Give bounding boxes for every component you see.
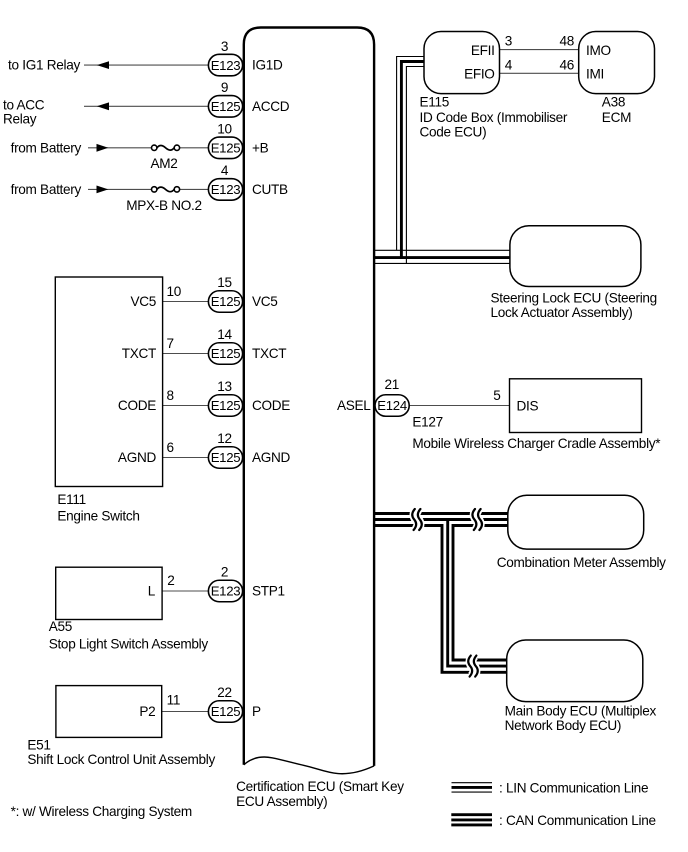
svg-text:IG1D: IG1D (252, 58, 283, 73)
svg-text:46: 46 (559, 57, 574, 72)
svg-text:3: 3 (505, 34, 512, 49)
wire P row (162, 711, 209, 713)
svg-text:10: 10 (167, 284, 182, 299)
svg-text:AGND: AGND (252, 450, 291, 465)
arrow to IG1 Relay (97, 61, 109, 69)
svg-text:11: 11 (167, 693, 181, 708)
box E127 Mobile Wireless Charger Cradle (510, 379, 642, 433)
box Steering Lock ECU (510, 226, 641, 287)
svg-text:Engine Switch: Engine Switch (57, 509, 139, 524)
svg-text:VC5: VC5 (252, 294, 278, 309)
CAN middle line (374, 518, 508, 521)
box Main Body ECU (507, 640, 643, 702)
svg-text:E115: E115 (420, 94, 450, 109)
svg-text:from Battery: from Battery (11, 140, 82, 155)
svg-text:A55: A55 (49, 619, 72, 634)
CAN top line (374, 512, 508, 515)
box E51 Shift Lock Control Unit (56, 686, 162, 738)
svg-text:13: 13 (217, 379, 232, 394)
LIN line horizontal thick (374, 256, 510, 259)
svg-text:Shift Lock Control Unit Assemb: Shift Lock Control Unit Assembly (27, 752, 215, 767)
box A38 ECM (579, 32, 655, 94)
svg-text:12: 12 (217, 431, 232, 446)
svg-text:IMI: IMI (586, 67, 604, 82)
fuse AM2 (152, 145, 157, 150)
svg-text:2: 2 (221, 565, 228, 580)
wire CODE row (163, 405, 209, 407)
box E115 ID Code Box (424, 32, 500, 94)
wire IG1D row (84, 64, 208, 66)
svg-text:14: 14 (217, 327, 232, 342)
svg-text:E125: E125 (211, 704, 241, 719)
LIN line horizontal thin bottom (374, 262, 510, 264)
svg-text:L: L (148, 584, 156, 599)
svg-text:E123: E123 (211, 58, 241, 73)
svg-text:Relay: Relay (3, 111, 37, 126)
svg-text:9: 9 (221, 80, 228, 95)
svg-text:E125: E125 (211, 141, 241, 156)
svg-text:E125: E125 (211, 294, 241, 309)
wire ASEL to DIS (409, 405, 509, 407)
svg-text:15: 15 (217, 275, 232, 290)
CAN bottom-left line with outer corner to Main Body ECU (374, 526, 507, 673)
svg-text:from Battery: from Battery (11, 182, 82, 197)
connector E125 VC5 (208, 291, 242, 313)
svg-text:MPX-B NO.2: MPX-B NO.2 (126, 198, 202, 213)
connector E125 TXCT (208, 343, 242, 365)
wire +B row right (180, 147, 209, 149)
svg-text:E123: E123 (211, 584, 241, 599)
fuse MPX-B NO.2 (152, 187, 157, 192)
svg-text:ACCD: ACCD (252, 99, 290, 114)
svg-text:CODE: CODE (118, 398, 156, 413)
connector E125 AGND (208, 447, 242, 469)
svg-text:CUTB: CUTB (252, 182, 288, 197)
svg-text:Network Body ECU): Network Body ECU) (505, 718, 622, 733)
svg-text:E127: E127 (412, 415, 443, 430)
legend CAN swatch (451, 813, 492, 816)
svg-text:7: 7 (167, 336, 174, 351)
svg-text:E51: E51 (27, 737, 50, 752)
legend LIN swatch (452, 782, 493, 784)
svg-text:ECU Assembly): ECU Assembly) (236, 794, 327, 809)
svg-text:E125: E125 (211, 346, 241, 361)
LIN line horizontal thin top (374, 249, 510, 251)
svg-text:to IG1 Relay: to IG1 Relay (8, 58, 80, 73)
svg-text:IMO: IMO (586, 43, 611, 58)
connector E125 ACCD (208, 96, 242, 118)
svg-text:E123: E123 (211, 182, 241, 197)
svg-text:A38: A38 (602, 94, 625, 109)
box Combination Meter Assembly (508, 495, 644, 549)
svg-text:E125: E125 (211, 450, 241, 465)
ECU wavy bottom edge (244, 757, 374, 774)
arrow to ACC Relay (97, 102, 109, 110)
wire EFII to IMO (500, 49, 579, 51)
svg-text:Steering Lock ECU (Steering: Steering Lock ECU (Steering (491, 290, 657, 305)
wire STP1 row (162, 590, 208, 592)
connector E123 IG1D (208, 54, 242, 76)
svg-text:10: 10 (217, 122, 232, 137)
wire ACCD row (84, 105, 208, 107)
svg-text:2: 2 (167, 573, 174, 588)
svg-text:VC5: VC5 (130, 294, 156, 309)
svg-text:EFII: EFII (471, 43, 495, 58)
wire break symbol on CAN near Main Body ECU (468, 656, 478, 677)
LIN branch thin outer to ID code box (397, 57, 424, 251)
svg-text:3: 3 (221, 39, 228, 54)
svg-text:Code ECU): Code ECU) (420, 125, 487, 140)
svg-text:E124: E124 (377, 398, 407, 413)
svg-text:Stop Light Switch Assembly: Stop Light Switch Assembly (49, 637, 209, 652)
svg-text:Main Body ECU (Multiplex: Main Body ECU (Multiplex (505, 703, 657, 718)
svg-text:22: 22 (217, 685, 232, 700)
svg-text:4: 4 (221, 163, 229, 178)
svg-text:8: 8 (167, 388, 174, 403)
svg-text:Combination Meter Assembly: Combination Meter Assembly (497, 555, 666, 570)
wire TXCT row (163, 353, 209, 355)
wire EFIO to IMI (500, 72, 579, 74)
wire VC5 row (163, 301, 209, 303)
connector E125 +B (208, 137, 242, 159)
wire break symbol on CAN near ECU (412, 509, 422, 530)
arrow from Battery (97, 144, 109, 152)
svg-text:CODE: CODE (252, 398, 290, 413)
svg-text:E125: E125 (211, 398, 241, 413)
ECU U1 Certification ECU body (244, 28, 374, 766)
svg-text:E111: E111 (57, 492, 86, 507)
svg-text:Mobile Wireless Charger Cradle: Mobile Wireless Charger Cradle Assembly* (412, 436, 661, 451)
svg-text:4: 4 (505, 57, 513, 72)
connector E123 STP1 (208, 580, 242, 602)
CAN middle branch to Main Body ECU (448, 520, 507, 666)
svg-text:EFIO: EFIO (464, 67, 495, 82)
arrow from Battery 2 (97, 186, 109, 194)
wire CUTB row right (180, 188, 209, 190)
svg-text:AM2: AM2 (150, 156, 177, 171)
LIN branch thick to ID code box (401, 62, 424, 258)
LIN branch thin inner to ID code box (406, 67, 424, 264)
svg-text:5: 5 (493, 388, 500, 403)
svg-text:Lock Actuator Assembly): Lock Actuator Assembly) (491, 305, 633, 320)
svg-text:+B: +B (252, 140, 269, 155)
wire break symbol on CAN near Combination Meter (472, 509, 482, 530)
box A55 Stop Light Switch (56, 567, 162, 619)
CAN bottom-right line with inner corner to Main Body ECU (453, 526, 508, 661)
connector E125 P (208, 701, 242, 723)
svg-text:TXCT: TXCT (252, 346, 286, 361)
box E111 Engine Switch (55, 277, 162, 487)
connector E125 CODE (208, 395, 242, 417)
svg-text:48: 48 (559, 34, 574, 49)
svg-text:P2: P2 (139, 704, 155, 719)
svg-text:: CAN Communication Line: : CAN Communication Line (499, 813, 656, 828)
connector E123 CUTB (208, 179, 242, 201)
wire +B row left (88, 147, 152, 149)
svg-text:AGND: AGND (118, 450, 157, 465)
svg-text:6: 6 (167, 440, 174, 455)
svg-text:P: P (252, 704, 261, 719)
svg-text:: LIN Communication Line: : LIN Communication Line (499, 780, 648, 795)
svg-text:ASEL: ASEL (337, 398, 371, 413)
connector E124 ASEL (375, 395, 409, 417)
svg-text:Certification ECU (Smart Key: Certification ECU (Smart Key (236, 779, 404, 794)
wire AGND row (163, 457, 209, 459)
svg-text:TXCT: TXCT (122, 346, 156, 361)
svg-text:21: 21 (385, 377, 400, 392)
svg-text:ECM: ECM (602, 110, 631, 125)
svg-text:E125: E125 (211, 99, 241, 114)
svg-text:ID Code Box (Immobiliser: ID Code Box (Immobiliser (420, 110, 568, 125)
svg-text:*: w/ Wireless Charging System: *: w/ Wireless Charging System (11, 804, 192, 819)
svg-text:STP1: STP1 (252, 584, 285, 599)
svg-text:DIS: DIS (517, 399, 539, 414)
wire CUTB row left (88, 188, 152, 190)
